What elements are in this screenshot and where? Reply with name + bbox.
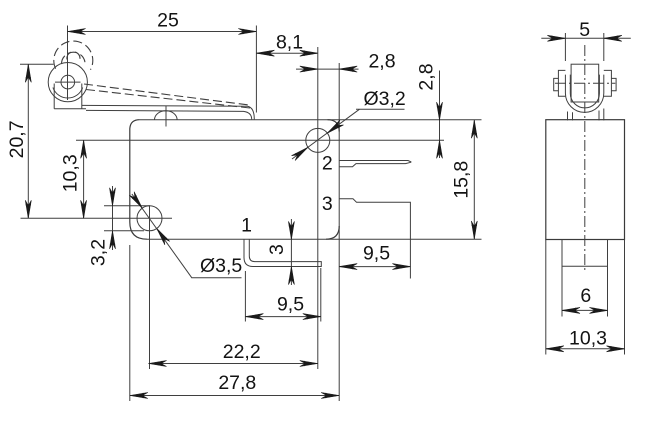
- svg-text:9,5: 9,5: [363, 243, 390, 265]
- plunger button on body top: [155, 111, 178, 120]
- dimension 22,2 line: [149, 363, 318, 365]
- switch body outline (front view): [130, 120, 339, 240]
- mounting hole bottom (Ø3,5): [137, 206, 162, 231]
- terminal 1 (bent, below body): [244, 239, 321, 266]
- svg-text:8,1: 8,1: [276, 32, 303, 54]
- svg-text:Ø3,5: Ø3,5: [200, 255, 242, 277]
- plunger centerline: [165, 106, 167, 127]
- svg-text:2,8: 2,8: [368, 51, 395, 73]
- svg-text:2: 2: [322, 153, 333, 175]
- dimension 27,8 line: [130, 395, 339, 397]
- svg-text:3,2: 3,2: [88, 239, 110, 266]
- side body outline: [546, 120, 625, 240]
- terminal 3 right edge extension: [409, 239, 411, 278]
- lever arm (dashed, free position): [84, 84, 250, 108]
- body right edge + vertical extensions: [338, 63, 340, 401]
- dimension 20,7 line: [27, 64, 29, 218]
- dimension 3,2: extension lines: [104, 205, 150, 207]
- side axle nub right: [611, 78, 616, 90]
- fork edge arc behind roller: [53, 88, 83, 99]
- side terminal tab: [562, 240, 608, 317]
- side roller: [571, 64, 599, 102]
- roller bracket: [54, 84, 86, 109]
- svg-text:20,7: 20,7: [6, 120, 28, 158]
- lever arm (solid): [82, 105, 254, 119]
- dimension 8,1 line: [256, 52, 317, 54]
- bottom hole vertical centerline/extension (22,2 left): [149, 206, 151, 369]
- roller (solid position): [48, 63, 87, 102]
- hole top horizontal centerline/extension: [76, 139, 444, 141]
- side axle tab right: [604, 70, 612, 96]
- dimension 10,3 line: [83, 140, 85, 218]
- dimension 9,5 (terminal 1) line: [245, 316, 320, 318]
- dimension 10,3 (side) line: [546, 348, 625, 350]
- side fork feet: [568, 109, 604, 121]
- dimension 5 line: [541, 37, 631, 39]
- side axle nub left: [554, 78, 559, 90]
- svg-text:10,3: 10,3: [60, 154, 82, 192]
- side body edges extended down: [546, 240, 625, 355]
- svg-text:10,3: 10,3: [569, 328, 607, 350]
- body bottom edge + right extension: [147, 238, 482, 240]
- dimension 3,2 line: [112, 186, 114, 250]
- dimension 20,7: top extension line: [20, 63, 54, 65]
- svg-text:3: 3: [266, 244, 288, 255]
- hole top vertical extension line: [317, 47, 319, 369]
- roller dashed position middle arc: [62, 52, 86, 64]
- dimension 2,8 (right, vertical) line: [439, 71, 441, 159]
- svg-text:6: 6: [580, 285, 591, 307]
- terminal 2: [339, 161, 411, 167]
- body top edge + right extension: [140, 119, 482, 121]
- roller pin: [61, 75, 75, 89]
- dimension 25 line: [68, 31, 257, 33]
- dimension 2,8 (top) line: [296, 68, 359, 70]
- dimension 6 line: [562, 309, 608, 311]
- side horizontal centerline: [555, 82, 615, 84]
- terminal 3: [339, 199, 410, 239]
- roller dashed position outer arc: [54, 41, 93, 70]
- svg-text:3: 3: [322, 193, 333, 215]
- side vertical centerline: [584, 45, 586, 272]
- roller axle horizontal center mark: [55, 81, 81, 83]
- svg-text:15,8: 15,8: [451, 161, 473, 199]
- bottom hole horizontal centerline/extension: [21, 217, 173, 219]
- svg-text:9,5: 9,5: [277, 294, 304, 316]
- roller dashed position pin: [67, 52, 80, 60]
- mounting hole top (Ø3,2): [306, 128, 330, 152]
- dimension 9,5 (terminal 3) line: [339, 266, 410, 268]
- dimension 15,8 line: [473, 120, 475, 239]
- svg-text:27,8: 27,8: [218, 372, 256, 394]
- dimension 27,8: left extension line: [129, 245, 131, 401]
- dimension 5: extension lines: [564, 33, 566, 61]
- dimension 25: extension line left (roller centerline): [67, 26, 69, 101]
- dimension 25: extension line right (lever end): [255, 26, 257, 113]
- svg-text:5: 5: [579, 19, 590, 41]
- svg-text:22,2: 22,2: [223, 341, 261, 363]
- svg-text:Ø3,2: Ø3,2: [364, 88, 406, 110]
- side fork (lever U-channel): [565, 75, 603, 113]
- svg-text:1: 1: [241, 215, 252, 237]
- side axle tab left: [558, 70, 565, 96]
- svg-text:2,8: 2,8: [416, 63, 438, 90]
- svg-text:25: 25: [157, 10, 179, 32]
- dimension 9,5 (terminal 1): extension lines: [244, 271, 246, 322]
- dimension 3 (terminal 1) line: [290, 219, 292, 285]
